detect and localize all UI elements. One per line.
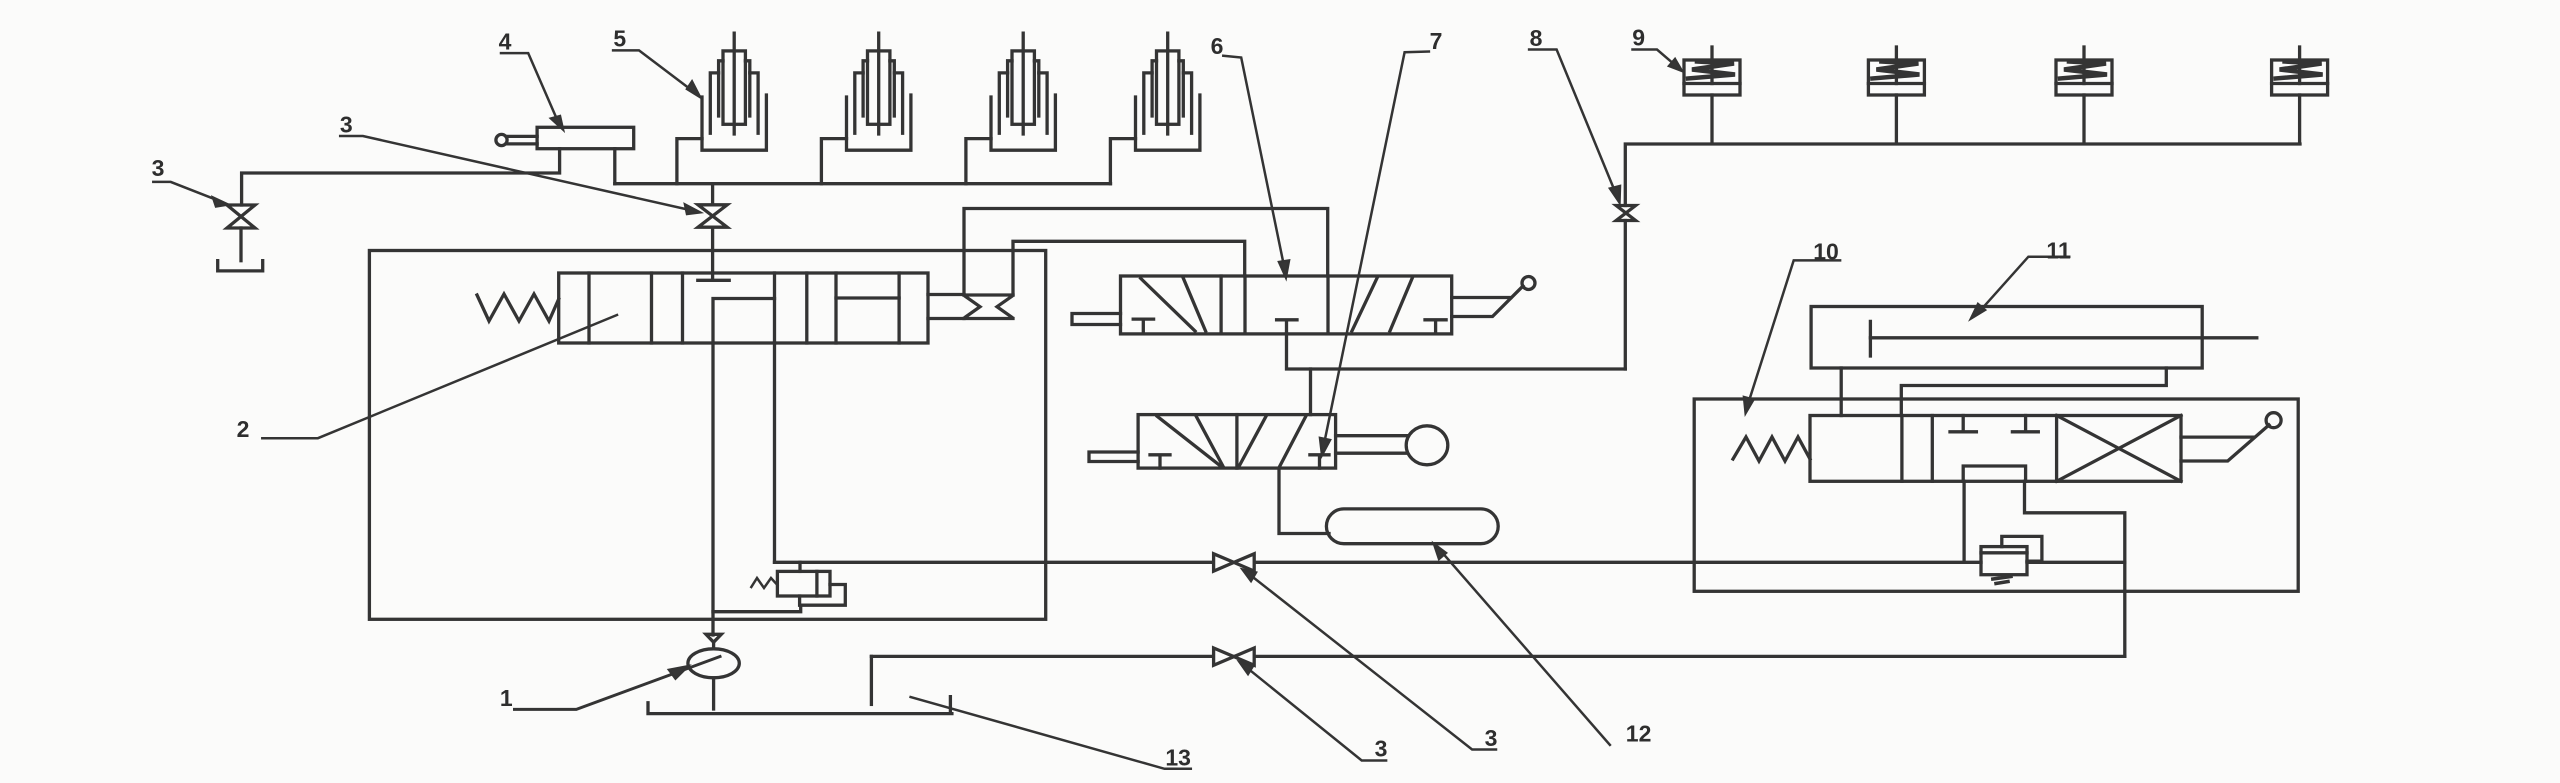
label 3 top leader	[340, 136, 700, 214]
valve V7 right diagonals	[1239, 416, 1306, 467]
valve 3d on line B	[1214, 648, 1255, 665]
pump P1	[688, 649, 739, 678]
cylinder C11 piston	[1869, 321, 1872, 356]
cylinder C4 piston rod	[507, 136, 537, 144]
relief valve RV1 divider	[815, 571, 818, 596]
svg-text:3: 3	[1485, 725, 1498, 751]
svg-text:4: 4	[499, 29, 512, 55]
wire: relief valve RV1 outlet to pump line	[713, 605, 801, 612]
svg-text:3: 3	[340, 111, 353, 137]
label 4 leader	[501, 53, 563, 129]
valve V7 body	[1138, 415, 1336, 469]
label 3 left leader	[153, 182, 228, 207]
valve V7 divider	[1235, 415, 1238, 469]
brake actuator 9b	[1868, 47, 1924, 144]
valve V7 handle ball	[1406, 426, 1448, 465]
cylinder C4 body	[537, 127, 634, 148]
valve V10 body	[1810, 416, 2181, 482]
svg-text:3: 3	[152, 155, 165, 181]
relief valve RV2 body	[1981, 547, 2027, 575]
relief valve RV2 spring hash	[1993, 577, 2011, 584]
wire: coupling to valve 6 second top port	[1013, 241, 1245, 295]
valve V7 left diagonals	[1157, 416, 1223, 466]
valve V10 middle section T ports	[1950, 416, 2038, 432]
wire: valve 2 down-pipe to pump	[711, 343, 714, 635]
relief valve RV2 divider	[1981, 551, 2027, 554]
cylinder C4 rod end ring	[496, 134, 507, 145]
valve 3b (middle shut-off valve)	[698, 205, 727, 227]
label 1	[515, 657, 721, 710]
telescopic cylinder 5d	[1110, 33, 1200, 184]
valve V7 left T port	[1150, 455, 1170, 468]
relief valve RV1 spring	[751, 578, 777, 588]
label 6 leader	[1223, 56, 1289, 278]
wire: branch down to valve 7 top	[1309, 369, 1312, 415]
valve V6 left section diagonals	[1141, 278, 1206, 331]
svg-text:11: 11	[2046, 237, 2071, 263]
telescopic cylinder 5b	[821, 33, 911, 184]
cylinder C11 body	[1811, 307, 2202, 369]
brake actuator 9d	[2272, 47, 2328, 144]
label 13 leader	[911, 697, 1191, 769]
svg-text:9: 9	[1632, 24, 1645, 50]
svg-text:13: 13	[1165, 745, 1191, 771]
wire: coupling to valve 6 left top port	[964, 209, 1328, 296]
tank symbol below valve 3a	[218, 261, 263, 271]
wire: cylinder 4 right port to manifold	[613, 149, 616, 184]
valve V2 mid-line in section	[836, 296, 899, 299]
wire: valve 10 left bottom port	[1962, 481, 1965, 561]
valve V2 body	[559, 273, 928, 343]
valve V7 right T port	[1310, 455, 1329, 468]
brake actuator 9a	[1684, 47, 1740, 144]
valve V8 (shut-off)	[1616, 206, 1635, 221]
valve V10 bottom pocket	[1963, 466, 2025, 481]
valve V6 right section diagonals	[1352, 278, 1413, 331]
label 10 leader	[1744, 260, 1840, 413]
telescopic cylinder 5c	[966, 33, 1056, 184]
flow arrow into pump	[706, 634, 721, 642]
valve V6 body	[1121, 276, 1452, 334]
svg-text:1: 1	[500, 685, 513, 711]
valve V6 middle T port	[1277, 320, 1297, 334]
wire: valve 6 bottom port to cross line	[1287, 334, 1626, 369]
accumulator A12	[1326, 509, 1498, 544]
coupling (double chevron)	[964, 295, 1013, 319]
wire: cylinder 11 left port down to valve 10	[1840, 368, 1843, 416]
valve V6 dividers	[1221, 276, 1328, 334]
wire: valve 10 right bottom port to line B	[2025, 481, 2125, 656]
valve V6 lever	[1452, 286, 1523, 317]
valve V2 internal channel U	[713, 299, 775, 344]
label 2	[262, 315, 617, 438]
wire: long line B	[871, 655, 2124, 658]
cylinder C11 rod	[1870, 336, 2256, 339]
relief valve RV1 secondary box	[800, 585, 846, 606]
svg-text:2: 2	[237, 416, 250, 442]
valve V10 lever	[2181, 425, 2269, 461]
label 5 leader	[613, 50, 700, 97]
label 11 leader	[1971, 257, 2069, 319]
valve V7 pilot plunger	[1089, 452, 1138, 462]
valve V2 section dividers	[589, 273, 899, 343]
brake actuator 9c	[2056, 47, 2112, 144]
wire: upper manifold	[615, 182, 1111, 185]
label 8 leader	[1529, 50, 1620, 203]
wire: manifold drop to valve 3b	[711, 184, 714, 205]
valve V6 lever knob	[1522, 277, 1535, 290]
svg-text:12: 12	[1626, 720, 1652, 746]
valve 3c on line A	[1214, 554, 1255, 571]
valve 3a (left shut-off valve)	[227, 205, 255, 228]
wire: drop to relief valve RV1	[798, 562, 801, 571]
relief valve RV2 secondary box	[2002, 536, 2042, 561]
svg-text:6: 6	[1211, 33, 1224, 59]
label 9 leader	[1633, 50, 1683, 72]
valve V2 divider at 774.5	[773, 273, 776, 299]
wire: pump to tank	[712, 678, 715, 709]
svg-text:5: 5	[613, 26, 626, 52]
relief valve RV1 body	[777, 571, 830, 596]
valve V2 output stubs	[928, 295, 964, 319]
wire: valve 3a to tank	[239, 228, 242, 261]
valve V7 handle rod	[1336, 436, 1407, 454]
valve V10 lever knob	[2266, 413, 2281, 428]
wire: valve 8 down to cross line	[1624, 221, 1627, 370]
enclosure box around valve 2 group	[369, 251, 1045, 620]
enclosure box around valve 10 group	[1694, 399, 2298, 591]
svg-text:10: 10	[1813, 239, 1839, 265]
label 3 bottom-2 leader	[1243, 570, 1497, 750]
wire: valve 8 to brake manifold	[1625, 144, 2300, 206]
valve V6 right T port	[1425, 320, 1446, 334]
tank T13	[648, 697, 952, 714]
label 12 leader	[1434, 544, 1610, 745]
wire: valve 2 side-pipe down to line A	[773, 343, 776, 562]
telescopic cylinder 5a	[677, 33, 767, 184]
label 7 leader	[1320, 52, 1429, 456]
wire: cylinder 11 right port routing to valve 10	[1901, 368, 2166, 416]
label 3 bottom-1 leader	[1240, 662, 1387, 761]
wire: long line A to right	[775, 561, 2125, 564]
valve V10 return spring	[1733, 437, 1810, 461]
svg-text:7: 7	[1430, 28, 1443, 54]
wire: valve 7 bottom port to accumulator	[1279, 468, 1329, 533]
valve V10 X section	[2057, 416, 2181, 482]
valve V10 dividers	[1902, 416, 2057, 482]
svg-text:3: 3	[1375, 735, 1388, 761]
valve V2 return spring	[477, 294, 559, 321]
svg-text:8: 8	[1530, 25, 1543, 51]
wire: top-left pipe from valve 3a to cylinder 4 left port	[242, 149, 560, 205]
valve V6 left T port	[1133, 319, 1153, 334]
valve V6 pilot plunger	[1072, 314, 1121, 325]
wire: valve 3b down to valve 2 port T	[698, 227, 729, 280]
wire: return line drop into tank	[870, 656, 873, 704]
